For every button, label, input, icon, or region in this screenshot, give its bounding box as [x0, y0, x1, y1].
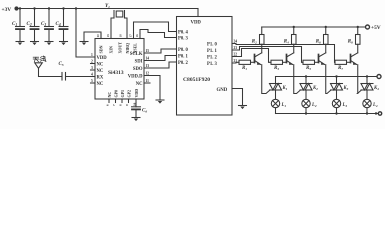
svg-text:NC: NC	[107, 92, 112, 98]
svg-text:P1. 1: P1. 1	[207, 49, 218, 54]
resistor R7	[335, 60, 347, 71]
svg-text:NC: NC	[97, 69, 104, 74]
wire triac K2 top to AC rail	[305, 77, 307, 84]
MCU U1 C8051F920	[177, 17, 233, 116]
node +5V supply terminal	[262, 25, 381, 31]
svg-text:SDN: SDN	[99, 45, 104, 53]
svg-text:P0. 0: P0. 0	[178, 48, 189, 53]
svg-text:L3: L3	[342, 103, 348, 108]
junction on AC bottom rail	[366, 112, 368, 114]
wire AC bottom rail (lamp returns)	[276, 113, 379, 115]
resistor R6	[316, 27, 328, 45]
svg-text:P0. 3: P0. 3	[178, 37, 189, 42]
ground under C3	[45, 42, 53, 46]
lamp L4	[363, 99, 378, 108]
svg-text:5: 5	[91, 79, 93, 83]
wire P1.1 bus to stage 3	[232, 47, 303, 63]
wire triac K2 to lamp L2	[305, 90, 307, 99]
C8051 right pin numbers 24 23 22 21	[234, 40, 238, 64]
Si4313 top pin stubs	[101, 34, 140, 39]
wire crystal legs to XIN XOUT	[111, 18, 127, 39]
svg-text:L2: L2	[311, 103, 317, 108]
svg-text:1: 1	[91, 53, 93, 57]
wire emitter of Q3 to triac gate	[326, 65, 331, 94]
svg-text:GP2: GP2	[127, 90, 132, 98]
resistor R8	[348, 27, 360, 45]
wire lamp L2 to bottom rail	[305, 108, 307, 114]
Si4313 top pin labels SDN XIN XOUT NIRQ NSEL	[99, 42, 138, 54]
wire R6 to collector	[325, 44, 327, 53]
transceiver U2 Si4313	[95, 39, 144, 100]
wire R3 to base	[283, 61, 287, 63]
svg-text:VDD: VDD	[191, 21, 202, 26]
wire C5 to RX pin 4	[66, 76, 96, 78]
svg-text:C1: C1	[12, 22, 17, 27]
wire SDI to P0.1	[144, 56, 177, 61]
svg-text:L1: L1	[281, 103, 287, 108]
ground under C2	[31, 42, 39, 46]
svg-text:XOUT: XOUT	[118, 42, 123, 54]
junction on +3V rail	[62, 7, 64, 9]
svg-text:K4: K4	[373, 86, 379, 91]
wire triac K3 to lamp L3	[336, 90, 338, 99]
wire lamp L3 to bottom rail	[336, 108, 338, 114]
svg-text:K3: K3	[343, 86, 349, 91]
Si4313 bottom pin stubs	[109, 99, 136, 103]
svg-text:R3: R3	[274, 66, 279, 71]
svg-text:C6: C6	[142, 108, 147, 113]
junction on +3V rail	[19, 7, 21, 9]
wire R4 to collector	[293, 44, 295, 53]
capacitor C1	[12, 9, 25, 42]
svg-text:2: 2	[91, 60, 93, 64]
resistor R5	[303, 60, 315, 71]
svg-text:NC: NC	[97, 62, 104, 67]
wire lamp L1 to bottom rail	[275, 108, 277, 114]
wire emitter of Q4 to triac gate	[358, 65, 362, 94]
svg-text:P0. 4: P0. 4	[178, 31, 189, 36]
svg-text:P1. 2: P1. 2	[207, 55, 218, 60]
resistor R4	[284, 27, 296, 45]
wire R1 to base	[251, 61, 255, 63]
svg-text:VDD.D: VDD.D	[128, 74, 143, 79]
capacitor C2	[27, 9, 40, 42]
Si4313 left pin stubs and numbers 1-5	[91, 53, 96, 83]
svg-text:C2: C2	[27, 22, 32, 27]
wire SCLK to P0.0	[144, 49, 177, 53]
wire NSEL to P0.3	[140, 30, 177, 38]
wire R5 to base	[315, 61, 319, 63]
capacitor C3	[41, 9, 54, 42]
wire lamp L4 to bottom rail	[366, 108, 368, 114]
wire R7 to base	[347, 61, 351, 63]
junction on +5V rail	[325, 26, 327, 28]
svg-text:SDO: SDO	[133, 67, 143, 72]
wire antenna to C5	[39, 76, 63, 78]
svg-text:R4: R4	[284, 40, 289, 45]
triac K4	[361, 84, 379, 91]
antenna 天线	[33, 56, 46, 77]
Si4313 NC pin stub	[144, 82, 150, 84]
ground C6	[132, 118, 140, 122]
junction on AC top rail	[366, 75, 368, 77]
transistor Q4	[351, 53, 358, 65]
transistor Q2	[287, 53, 294, 65]
wire GND pin to ground	[232, 89, 243, 106]
svg-text:C5: C5	[59, 62, 64, 67]
wire triac K1 to lamp L1	[275, 90, 277, 99]
svg-text:+5V: +5V	[371, 25, 381, 31]
junction on AC top rail	[335, 75, 337, 77]
wire emitter of Q1 to triac gate	[262, 65, 270, 94]
Si4313 right pin labels	[128, 52, 143, 87]
Si4313 bottom pin labels NC GP0 GP1 GP2 VDD	[107, 89, 139, 98]
svg-text:R1: R1	[242, 66, 247, 71]
Si4313 top pin numbers	[97, 34, 139, 37]
C8051 right pin labels P1.0 P1.1 P1.2 P1.3	[207, 42, 218, 67]
Si4313 right pin numbers	[146, 49, 150, 83]
svg-text:R5: R5	[306, 66, 311, 71]
svg-text:P1. 0: P1. 0	[207, 42, 218, 47]
Si4313 left pin labels	[97, 56, 108, 87]
ground under C1	[16, 42, 24, 46]
resistor R1	[239, 60, 251, 71]
svg-text:VDD: VDD	[97, 56, 108, 61]
triac K2	[300, 84, 318, 91]
svg-text:C3: C3	[41, 22, 46, 27]
svg-text:L4: L4	[372, 103, 378, 108]
node AC terminal bottom	[375, 112, 382, 115]
junction on AC top rail	[305, 75, 307, 77]
svg-text:NC: NC	[97, 82, 104, 87]
ground VDD.D	[156, 100, 164, 104]
node +3V supply terminal	[2, 6, 19, 13]
svg-text:+3V: +3V	[2, 7, 12, 13]
capacitor C5 series	[59, 62, 66, 80]
wire NIRQ to P0.4	[134, 22, 177, 34]
svg-text:3: 3	[91, 66, 93, 70]
wire +3V to Si4313 VDD pin 1	[76, 9, 95, 58]
wire P1.2 bus to stage 2	[232, 49, 271, 63]
svg-text:R7: R7	[338, 66, 343, 71]
triac K1	[270, 84, 288, 91]
svg-text:C8051F920: C8051F920	[183, 77, 210, 83]
svg-text:P0. 2: P0. 2	[178, 61, 189, 66]
wire SDO to P0.2	[144, 62, 177, 68]
svg-text:Si4313: Si4313	[108, 70, 124, 76]
lamp L2	[302, 99, 317, 108]
svg-text:GP0: GP0	[114, 90, 119, 98]
svg-text:VDD: VDD	[134, 89, 139, 98]
svg-text:R6: R6	[316, 40, 321, 45]
ground under C4	[60, 42, 68, 46]
wire R8 to collector	[357, 44, 359, 53]
wire P1.0 bus to stage 4	[232, 44, 335, 63]
transistor Q1	[255, 53, 262, 65]
junction on +3V rail	[48, 7, 50, 9]
wire +3V rail into VDD top pin	[197, 9, 199, 17]
svg-text:RX: RX	[97, 75, 104, 80]
wire triac K1 top to AC rail	[275, 77, 277, 84]
svg-text:R8: R8	[348, 40, 353, 45]
crystal Y1	[105, 3, 125, 18]
wire R2 to collector	[261, 44, 263, 53]
wire triac K4 top to AC rail	[366, 77, 368, 84]
lamp L3	[332, 99, 347, 108]
wire VDD.D to ground	[144, 76, 160, 101]
svg-text:NC: NC	[136, 82, 143, 87]
wire triac K3 top to AC rail	[336, 77, 338, 84]
ground C8051 GND	[239, 106, 247, 110]
svg-text:K1: K1	[282, 86, 288, 91]
wire emitter of Q2 to triac gate	[294, 65, 301, 94]
junction on +5V rail	[357, 26, 359, 28]
wire P1.3 to stage 1	[232, 61, 239, 64]
junction on AC bottom rail	[335, 112, 337, 114]
wire +3V rail	[18, 8, 198, 10]
ground SDN	[80, 42, 88, 46]
svg-text:SDI: SDI	[135, 59, 143, 64]
transistor Q3	[319, 53, 326, 65]
svg-text:R2: R2	[252, 40, 257, 45]
capacitor C6 on Si4313 bottom VDD	[132, 103, 148, 118]
capacitor C4	[56, 9, 69, 42]
junction on +5V rail	[293, 26, 295, 28]
svg-text:C4: C4	[56, 22, 61, 27]
junction on AC bottom rail	[305, 112, 307, 114]
Si4313 bottom pin numbers	[105, 102, 136, 106]
wire AC top rail (triac anodes)	[276, 76, 378, 78]
svg-text:GP1: GP1	[120, 90, 125, 98]
triac K3	[331, 84, 349, 91]
node AC terminal top	[377, 75, 381, 79]
svg-text:SCLK: SCLK	[130, 52, 143, 57]
svg-text:GND: GND	[217, 88, 228, 93]
wire triac K4 to lamp L4	[366, 90, 368, 99]
resistor R3	[271, 60, 283, 71]
resistor R2	[252, 27, 264, 45]
C8051 left pin labels P0.4 P0.3 P0.0 P0.1 P0.2	[178, 31, 189, 67]
svg-text:P1. 3: P1. 3	[207, 62, 218, 67]
lamp L1	[271, 99, 286, 108]
svg-text:P0. 1: P0. 1	[178, 55, 189, 60]
svg-text:K2: K2	[312, 86, 318, 91]
wire SDN to ground	[84, 32, 101, 42]
junction on +3V rail	[75, 7, 77, 9]
svg-text:XIN: XIN	[109, 46, 114, 53]
junction on +3V rail	[33, 7, 35, 9]
